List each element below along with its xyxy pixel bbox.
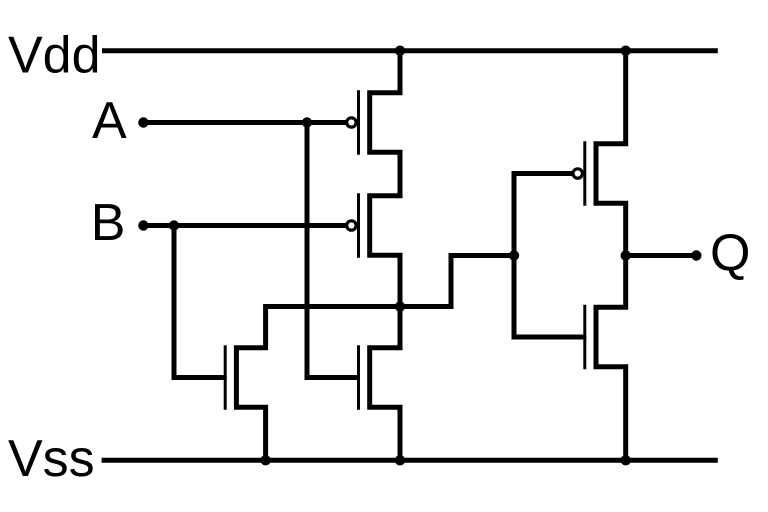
svg-text:Q: Q [710,224,750,282]
svg-text:B: B [91,194,126,252]
svg-text:A: A [92,92,127,150]
svg-text:Vss: Vss [8,430,95,488]
svg-text:Vdd: Vdd [8,26,101,84]
